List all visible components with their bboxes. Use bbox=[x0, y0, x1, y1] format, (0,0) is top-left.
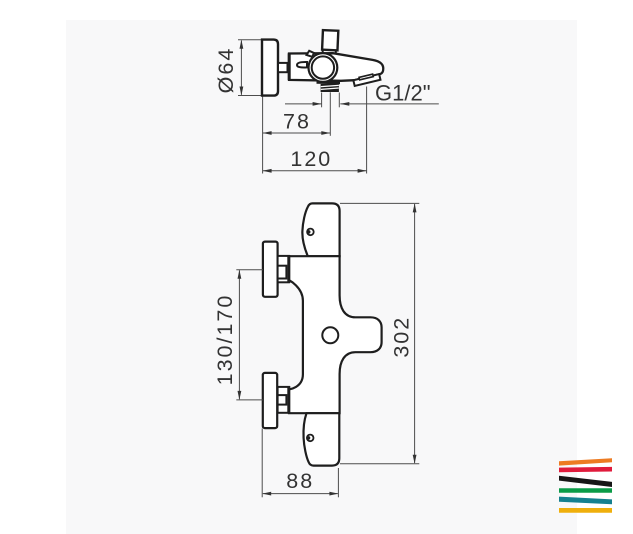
logo stripe red bbox=[559, 467, 612, 472]
top knob (front view) bbox=[263, 242, 278, 297]
screw hole bottom dot bbox=[307, 436, 311, 440]
extension line outlet right bbox=[338, 93, 340, 108]
dimension 88 arrow left bbox=[262, 492, 271, 496]
dimension 120 arrow right bbox=[358, 169, 367, 173]
extension line 130/170 top bbox=[236, 269, 263, 271]
screw hole top bbox=[307, 229, 314, 236]
logo stripe green bbox=[559, 488, 612, 493]
dimension 302 arrow up bbox=[413, 203, 417, 212]
outlet flange band bbox=[317, 81, 341, 85]
dimension Ø64 line bbox=[240, 41, 242, 95]
body left edge thick bbox=[288, 53, 291, 80]
dimension 302 arrow down bbox=[413, 455, 417, 464]
extension line 88 right bbox=[337, 468, 339, 497]
dimension 130/170 arrow up bbox=[238, 270, 242, 279]
extension line outlet left bbox=[321, 93, 323, 108]
bottom stem notch bbox=[278, 395, 287, 405]
logo stripe yellow bbox=[559, 508, 612, 513]
dimension G1/2 line left part bbox=[285, 103, 322, 105]
logo stripe teal bbox=[559, 497, 612, 505]
bottom knob (front view) bbox=[263, 373, 277, 428]
svg-text:78: 78 bbox=[283, 110, 311, 134]
knob neck bbox=[278, 63, 288, 72]
screw hole bottom bbox=[307, 435, 314, 442]
top stem joint line bbox=[287, 255, 290, 283]
center cap circle bbox=[322, 327, 338, 343]
dimension 130/170 line bbox=[238, 270, 240, 399]
bottom mounting lug bbox=[303, 413, 339, 465]
tab left finger of ring nut bbox=[297, 62, 307, 68]
faucet body with spout (side view) bbox=[289, 53, 383, 81]
top stem bbox=[278, 256, 289, 282]
thread ridge 2 bbox=[321, 88, 339, 89]
dimension 120 arrow left bbox=[263, 169, 272, 173]
faucet body (front view) bbox=[289, 256, 382, 413]
extension line 88 left bbox=[261, 429, 263, 498]
dimension 78 arrow right bbox=[321, 131, 330, 135]
dimension 78 arrow left bbox=[263, 131, 272, 135]
extension line outlet center bbox=[329, 92, 331, 136]
dimension 302 line bbox=[414, 204, 416, 463]
top stem notch bbox=[278, 266, 287, 279]
extension line 302 top bbox=[340, 202, 419, 204]
dimension Ø64 extension line top bbox=[238, 39, 262, 41]
dimension G1/2 arrow right-pointing bbox=[313, 102, 322, 106]
svg-text:Ø64: Ø64 bbox=[214, 47, 238, 94]
dimension 130/170 arrow down bbox=[238, 391, 242, 400]
temperature ring inner bbox=[312, 56, 334, 78]
dimension G1/2 line right part bbox=[340, 103, 439, 105]
extension line spout tip bbox=[366, 87, 368, 174]
temperature ring outer bbox=[309, 53, 338, 82]
svg-text:G1/2": G1/2" bbox=[375, 81, 431, 106]
thread ridge 1 bbox=[321, 85, 339, 86]
bottom stem joint line bbox=[287, 386, 290, 414]
dimension 78 line bbox=[263, 132, 331, 134]
screw hole top dot bbox=[307, 230, 311, 234]
svg-text:120: 120 bbox=[290, 147, 332, 171]
dimension Ø64 arrow up bbox=[240, 40, 244, 49]
extension line 130/170 bottom bbox=[236, 399, 262, 401]
svg-text:302: 302 bbox=[390, 316, 414, 358]
tab top-left of ring nut bbox=[307, 51, 315, 57]
threaded outlet G1/2 bbox=[321, 84, 339, 92]
handle knob (side view) bbox=[262, 40, 278, 96]
dimension G1/2 arrow left-pointing bbox=[340, 102, 349, 106]
spout aerator bbox=[353, 73, 380, 86]
logo stripe black bbox=[559, 476, 612, 487]
top mounting lug bbox=[302, 203, 339, 256]
bottom stem bbox=[278, 387, 289, 413]
diverter stem bbox=[322, 49, 324, 54]
drawing panel background bbox=[66, 20, 577, 534]
wire: extension line from knob down to 78/120 dims bbox=[262, 96, 264, 174]
svg-text:88: 88 bbox=[286, 469, 314, 493]
extension line 302 bottom bbox=[340, 463, 419, 465]
dimension 88 line bbox=[263, 493, 338, 495]
diverter knob bbox=[322, 30, 338, 50]
dimension 88 arrow right bbox=[329, 492, 338, 496]
dimension Ø64 arrow down bbox=[240, 87, 244, 96]
logo stripe orange bbox=[559, 458, 612, 465]
svg-text:130/170: 130/170 bbox=[213, 294, 237, 386]
dimension Ø64 extension line bottom bbox=[238, 95, 262, 97]
dimension 120 line bbox=[263, 170, 367, 172]
